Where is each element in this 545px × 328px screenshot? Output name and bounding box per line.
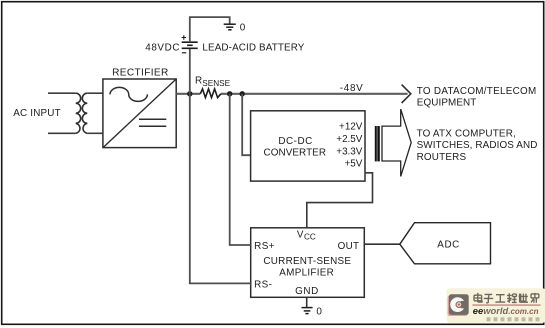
wire AC input top terminal (48, 92, 76, 94)
svg-text:RS+: RS+ (254, 241, 275, 252)
svg-text:RECTIFIER: RECTIFIER (112, 67, 168, 78)
svg-text:CC: CC (304, 233, 316, 242)
node TO ATX COMPUTER label (417, 128, 538, 163)
current-sense amplifier U2 (251, 228, 365, 297)
wire OUT to ADC (364, 243, 400, 245)
wire AC input bottom terminal (48, 132, 76, 134)
node TO DATACOM/TELECOM EQUIPMENT label (417, 86, 537, 108)
current-sense amplifier name (263, 256, 351, 279)
battery B1 48VDC lead-acid (182, 35, 198, 53)
wire battery positive to ground (190, 17, 230, 42)
wire DC-DC output to VCC (307, 173, 373, 228)
svg-text:DC-DC: DC-DC (278, 136, 312, 147)
svg-text:SENSE: SENSE (202, 79, 230, 88)
svg-text:OUT: OUT (338, 241, 360, 252)
DC-DC converter U1 (251, 111, 365, 181)
transformer T1 secondary winding (82, 93, 87, 133)
svg-text:eeworld.com.cn: eeworld.com.cn (473, 305, 539, 316)
DC-DC converter label (264, 136, 327, 159)
svg-text:48VDC: 48VDC (145, 43, 180, 54)
wire transformer to rectifier top (87, 92, 103, 94)
svg-text:+5V: +5V (345, 158, 363, 169)
rectifier block (103, 79, 176, 148)
node junction dot B (RS+) (227, 91, 232, 96)
svg-text:ADC: ADC (437, 239, 460, 250)
arrow to datacom equipment (402, 85, 411, 103)
node junction dot C (DC-DC input) (240, 91, 245, 96)
svg-text:R: R (195, 76, 202, 87)
resistor RSENSE label (195, 76, 231, 88)
wire transformer to rectifier bottom (87, 132, 103, 134)
svg-text:+3.3V: +3.3V (336, 146, 362, 157)
resistor RSENSE (200, 89, 221, 98)
svg-text:LEAD-ACID BATTERY: LEAD-ACID BATTERY (202, 43, 304, 54)
svg-text:V: V (297, 230, 304, 241)
arrow to ATX computer (382, 109, 411, 176)
svg-text:TO DATACOM/TELECOM: TO DATACOM/TELECOM (417, 86, 537, 97)
svg-text:AC INPUT: AC INPUT (13, 108, 61, 119)
wire battery negative to bus (189, 48, 191, 94)
wire node B to RS+ (230, 94, 251, 245)
svg-text:GND: GND (295, 286, 319, 297)
svg-text:EQUIPMENT: EQUIPMENT (417, 98, 477, 109)
pin VCC label (297, 230, 316, 242)
svg-text:+12V: +12V (339, 121, 363, 132)
svg-text:CURRENT-SENSE: CURRENT-SENSE (263, 256, 351, 267)
ground (battery) (224, 24, 236, 30)
ADC block (400, 223, 491, 264)
wire GND to ground (306, 297, 308, 307)
svg-text:RS-: RS- (254, 280, 272, 291)
transformer T1 primary winding (76, 93, 81, 133)
svg-text:SWITCHES, RADIOS AND: SWITCHES, RADIOS AND (417, 140, 538, 151)
ground (amplifier GND) (302, 308, 313, 314)
wire node A to RS- (190, 94, 251, 284)
svg-text:-48V: -48V (340, 83, 364, 94)
wire bus to DC-DC converter input (242, 94, 250, 155)
svg-text:0: 0 (316, 307, 322, 318)
svg-text:+2.5V: +2.5V (336, 134, 362, 145)
node junction dot A (battery / RS-) (187, 91, 192, 96)
svg-text:CONVERTER: CONVERTER (264, 148, 327, 159)
svg-text:ROUTERS: ROUTERS (417, 152, 467, 163)
svg-text:0: 0 (240, 23, 246, 34)
svg-text:AMPLIFIER: AMPLIFIER (279, 268, 334, 279)
svg-text:TO ATX COMPUTER,: TO ATX COMPUTER, (417, 128, 516, 139)
watermark logo eeworld (447, 288, 545, 323)
connector J1 output plug (375, 126, 380, 161)
wire rectifier output to -48V bus (176, 93, 407, 95)
